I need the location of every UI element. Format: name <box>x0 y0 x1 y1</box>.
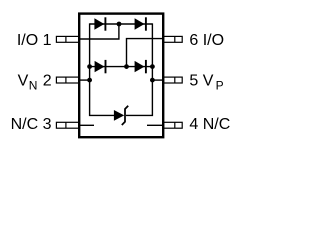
svg-text:6 I/O: 6 I/O <box>189 32 224 49</box>
svg-text:V: V <box>18 72 29 89</box>
svg-text:I/O 1: I/O 1 <box>17 32 52 49</box>
svg-text:4 N/C: 4 N/C <box>189 116 230 133</box>
svg-text:N/C 3: N/C 3 <box>11 116 52 133</box>
svg-text:N: N <box>29 78 38 92</box>
svg-text:2: 2 <box>43 72 52 89</box>
svg-text:5 V: 5 V <box>189 72 213 89</box>
svg-text:P: P <box>216 78 224 92</box>
